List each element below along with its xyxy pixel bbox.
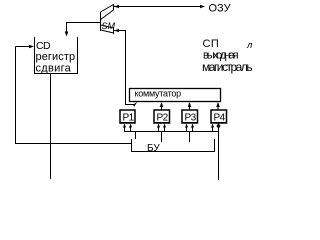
drop rail to BU col2 bbox=[161, 132, 163, 143]
arrowhead into SM (left) bbox=[114, 5, 119, 9]
svg-text:Р1: Р1 bbox=[123, 113, 135, 124]
arrowhead to OZU (right) bbox=[200, 5, 205, 9]
junction dot bbox=[217, 124, 221, 128]
drop rail to BU col3 bbox=[189, 132, 191, 143]
wire P2 up-arrow into commutator bbox=[161, 103, 163, 110]
register CD box (top edge faded in scan) bbox=[35, 37, 78, 74]
stems rail to P1 with up arrowheads bbox=[124, 126, 126, 131]
svg-text:СП: СП bbox=[203, 38, 220, 50]
register P4 box bbox=[211, 110, 227, 123]
wire P3 up-arrow into commutator bbox=[189, 103, 191, 110]
wire SM to CD register bbox=[67, 23, 101, 36]
svg-text:БУ: БУ bbox=[147, 143, 160, 154]
commutator box bbox=[130, 89, 221, 102]
arrowhead into SM (left) bbox=[114, 29, 119, 33]
stem rail to P4 bbox=[212, 126, 214, 131]
stems rail to P3 bbox=[186, 126, 188, 131]
register P2 box bbox=[154, 110, 170, 123]
wire P4 output down bbox=[218, 123, 220, 180]
wire input arrow into CD register bbox=[16, 46, 30, 48]
wire CD bottom down bbox=[50, 74, 52, 180]
drop rail to BU col1 bbox=[135, 132, 137, 140]
wire commutator to SM bbox=[114, 31, 134, 105]
svg-text:Р3: Р3 bbox=[185, 113, 197, 124]
wire left vertical down and into BU bbox=[16, 47, 132, 144]
stems rail to P2 bbox=[158, 126, 160, 131]
control unit BU box (top edge faded in scan) bbox=[132, 139, 215, 152]
adder SM symbol bbox=[101, 4, 114, 34]
svg-text:магистраль: магистраль bbox=[202, 60, 252, 74]
svg-text:Р4: Р4 bbox=[214, 113, 226, 124]
arrowhead up-right into commutator bottom bbox=[133, 102, 137, 107]
register P3 box bbox=[182, 110, 198, 123]
svg-text:ОЗУ: ОЗУ bbox=[209, 3, 232, 15]
svg-text:SM: SM bbox=[102, 21, 116, 31]
svg-text:л: л bbox=[246, 40, 253, 51]
wire SM to OZU (top bus) bbox=[114, 6, 204, 8]
register P1 box bbox=[120, 110, 135, 123]
wire P4 up-arrow into commutator bbox=[217, 103, 219, 110]
svg-text:коммутатор: коммутатор bbox=[135, 89, 182, 99]
arrowhead right into CD left edge bbox=[29, 45, 34, 49]
svg-text:сдвига: сдвига bbox=[36, 63, 72, 75]
svg-text:Р2: Р2 bbox=[157, 113, 169, 124]
arrowhead down into CD box bbox=[65, 32, 69, 37]
rail bus under registers bbox=[124, 131, 219, 133]
svg-text:регистр: регистр bbox=[36, 51, 76, 63]
